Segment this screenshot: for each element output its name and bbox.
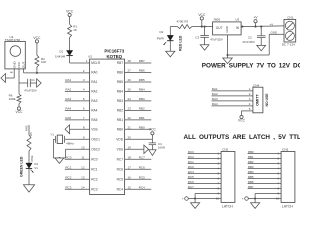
svg-text:RB7: RB7 [139, 59, 145, 63]
power rail wire (LED corner to 7805 OUT) [170, 26, 212, 28]
svg-text:RB5: RB5 [139, 78, 145, 82]
svg-text:VSS: VSS [91, 127, 97, 131]
svg-text:1N4148: 1N4148 [55, 54, 66, 58]
wire pin 27 RB6 [125, 69, 152, 73]
svg-text:100N: 100N [158, 146, 165, 150]
svg-text:POWER SUPPLY 7V TO 12V DC: POWER SUPPLY 7V TO 12V DC [202, 62, 300, 69]
svg-text:MCLR: MCLR [91, 61, 101, 65]
svg-text:RC2: RC2 [65, 176, 71, 180]
svg-text:RA1: RA1 [65, 78, 71, 82]
capacitor C3 47uF/25V [195, 26, 223, 45]
svg-text:RA3: RA3 [65, 97, 71, 101]
svg-text:15: 15 [128, 186, 132, 190]
capacitor C4 100N [149, 139, 165, 150]
regulator U3 7805 [213, 18, 242, 35]
led D2 PWR with label RED LED [157, 30, 183, 51]
wire pin 4 RA2 [65, 88, 90, 92]
wire TSOP OUT pin down [23, 69, 25, 73]
svg-text:D2: D2 [160, 30, 164, 34]
svg-text:RB4: RB4 [139, 88, 145, 92]
power VCC above R2 [33, 36, 41, 43]
svg-text:GND: GND [12, 61, 16, 69]
svg-text:RC6: RC6 [139, 166, 145, 170]
svg-text:16: 16 [128, 176, 132, 180]
wire 7805 GND down [226, 35, 228, 58]
svg-text:RB1: RB1 [139, 116, 145, 120]
svg-text:19: 19 [128, 146, 132, 150]
svg-text:CN2: CN2 [222, 147, 228, 151]
svg-text:12: 12 [81, 166, 85, 170]
wire pin 22 RB1 [125, 116, 152, 120]
wire pin 5 RA3 [65, 97, 90, 101]
wire pin 12 RC1 [65, 166, 90, 170]
wire TSOP VCC pin down [18, 69, 20, 94]
wire CN3 pin 2 RB1 [248, 155, 282, 161]
svg-text:RC5: RC5 [117, 178, 124, 182]
svg-text:RA4: RA4 [91, 109, 97, 113]
connector CN4 [253, 83, 269, 112]
svg-text:RB3: RB3 [117, 99, 123, 103]
svg-text:RB1: RB1 [117, 118, 123, 122]
wire CN3 pin 7 RB6 [248, 180, 282, 186]
svg-text:18: 18 [128, 156, 132, 160]
capacitor C2 47uF/25V [242, 26, 265, 46]
svg-text:RB0: RB0 [117, 127, 123, 131]
ground C1 (right arrow) [37, 79, 42, 87]
wire CN2 pin 10 GND [182, 197, 221, 201]
wire CN3 pin 3 RB2 [248, 160, 282, 166]
resistor R3 470E [177, 20, 193, 29]
U2 left pin names [91, 61, 101, 191]
power VCC node at U2 [149, 128, 157, 135]
wire pin 15 RC4 [125, 186, 152, 190]
wire pin 24 RB3 [125, 97, 152, 101]
svg-text:470E R3: 470E R3 [177, 20, 189, 24]
svg-text:RC4: RC4 [188, 170, 194, 174]
svg-text:VCC: VCC [16, 110, 24, 114]
IR receiver U1 TSOP1738 [5, 35, 26, 69]
svg-text:VCC: VCC [238, 119, 246, 123]
svg-text:RB0: RB0 [248, 150, 254, 154]
wire CN2 pin 5 RC4 [188, 170, 222, 176]
svg-text:LATCH: LATCH [282, 204, 293, 208]
svg-text:GND: GND [225, 26, 229, 32]
node +V terminal [253, 16, 273, 28]
svg-text:RB6: RB6 [139, 69, 145, 73]
svg-text:RB4: RB4 [248, 170, 254, 174]
led D2 PWR red [167, 27, 173, 41]
capacitor C1 47uF/25V [19, 78, 37, 92]
svg-text:RC5: RC5 [139, 176, 145, 180]
wire pin 18 RC7 [125, 156, 152, 160]
label all outputs heading [184, 134, 302, 141]
pin 1 wire MCLR [70, 59, 90, 63]
svg-text:10: 10 [276, 197, 280, 201]
svg-text:VCC: VCC [17, 61, 21, 68]
connector CN2 latch output [221, 147, 235, 208]
ground crystal [55, 158, 64, 163]
crystal Y1 4MHz [50, 132, 89, 159]
wire CN3 pin 1 RB0 [248, 150, 282, 156]
svg-text:22: 22 [128, 116, 132, 120]
svg-text:20: 20 [128, 136, 132, 140]
wire pin 25 RB4 [125, 88, 152, 92]
wire pin 16 RC5 [125, 176, 152, 180]
svg-text:RC7: RC7 [117, 158, 124, 162]
svg-text:U2: U2 [88, 55, 92, 59]
ground CN2 [191, 199, 200, 209]
svg-text:VDD: VDD [116, 138, 123, 142]
wire TSOP OUT to pin 2 RA0 [24, 69, 90, 73]
svg-text:LATCH: LATCH [222, 204, 233, 208]
wire pin 13 RC2 [65, 176, 90, 180]
wire pin 26 RB5 [125, 78, 152, 82]
svg-text:VCC: VCC [33, 36, 41, 40]
wire CN2 pin 7 RC6 [188, 180, 222, 186]
svg-text:RB7: RB7 [248, 185, 254, 189]
svg-text:1K: 1K [73, 28, 77, 32]
svg-text:24: 24 [128, 97, 132, 101]
svg-text:RB0: RB0 [139, 125, 145, 129]
wire pin 20 VDD to VCC [125, 135, 153, 140]
svg-text:47uF/25V: 47uF/25V [242, 40, 255, 44]
ground CN3 [251, 199, 260, 209]
svg-text:RC2: RC2 [188, 155, 194, 159]
svg-text:RC2: RC2 [91, 178, 98, 182]
svg-text:100E: 100E [9, 97, 16, 101]
svg-text:U3: U3 [235, 18, 239, 22]
svg-text:RB3: RB3 [139, 97, 145, 101]
wire RA5 net to green led [24, 125, 33, 136]
svg-text:21: 21 [128, 125, 132, 129]
wire TSOP GND pin to ground [5, 69, 14, 78]
svg-text:14: 14 [81, 186, 85, 190]
node junction R2/OUT [36, 72, 38, 74]
ground green led [23, 185, 34, 192]
svg-text:RB7: RB7 [117, 61, 123, 65]
wire CN3 pin 5 RB4 [248, 170, 282, 176]
wire CN2 pin 4 RC0 [188, 165, 222, 171]
svg-text:RC3: RC3 [188, 150, 194, 154]
svg-text:RC0: RC0 [188, 165, 194, 169]
svg-text:OSC2: OSC2 [91, 148, 100, 152]
svg-text:KOTEQ: KOTEQ [106, 54, 122, 59]
svg-text:RB5: RB5 [248, 175, 254, 179]
svg-text:OMITT: OMITT [255, 93, 259, 105]
wire CN4 pin 3 RA3 [212, 97, 253, 101]
svg-text:RC5: RC5 [188, 175, 194, 179]
svg-text:RC0: RC0 [91, 158, 98, 162]
svg-text:47uF/25V: 47uF/25V [24, 88, 37, 92]
svg-text:+: + [182, 197, 184, 201]
svg-text:RA0: RA0 [91, 71, 97, 75]
svg-text:RA3: RA3 [212, 97, 218, 101]
svg-text:VCC: VCC [198, 13, 206, 17]
svg-text:RC1: RC1 [65, 166, 71, 170]
svg-text:R5: R5 [29, 132, 33, 136]
svg-text:RB5: RB5 [117, 80, 123, 84]
svg-text:RC0: RC0 [65, 156, 71, 160]
wire CN2 pin 8 RC7 [188, 185, 222, 191]
wire 7805 IN to +V [241, 26, 284, 28]
wire pin 11 RC0 [65, 156, 90, 160]
wire pin 7 RA5 [65, 116, 90, 120]
ground C3 [200, 45, 209, 50]
wire CN3 pin 9 +V [255, 192, 281, 199]
wire CN1 GND return [228, 31, 285, 55]
resistor R2 10K [35, 43, 46, 73]
svg-text:V1: V1 [34, 166, 38, 170]
svg-text:RC7: RC7 [188, 185, 194, 189]
wire CN3 pin 4 RB3 [248, 165, 282, 171]
wire CN3 pin 10 GND [242, 197, 281, 201]
svg-text:RB2: RB2 [139, 107, 145, 111]
svg-text:D1: D1 [59, 49, 63, 53]
svg-text:RC1: RC1 [188, 160, 194, 164]
power VCC above R1 [66, 9, 74, 16]
svg-text:OUT: OUT [216, 26, 223, 30]
svg-text:RC6: RC6 [188, 180, 194, 184]
svg-text:4MHz: 4MHz [66, 142, 74, 146]
svg-text:RA5: RA5 [24, 125, 28, 131]
power VCC below R6 [16, 104, 24, 115]
ground TSOP (left arrow) [1, 74, 6, 83]
svg-text:RB4: RB4 [117, 90, 123, 94]
svg-text:C2: C2 [248, 35, 252, 39]
svg-text:RB2: RB2 [117, 109, 123, 113]
svg-text:RA2: RA2 [91, 90, 97, 94]
svg-text:27: 27 [128, 69, 132, 73]
wire CN2 pin 3 RC1 [188, 160, 222, 166]
svg-text:RA5: RA5 [91, 118, 97, 122]
svg-text:RB2: RB2 [248, 160, 254, 164]
wire pin 17 RC6 [125, 166, 152, 170]
wire CN4 pin 1 RA1 [212, 87, 253, 91]
wire pin 3 RA1 [65, 78, 90, 82]
U2 right pin names [116, 61, 123, 191]
svg-text:C3: C3 [195, 35, 199, 39]
svg-text:RA2: RA2 [212, 92, 218, 96]
svg-text:47uF/25V: 47uF/25V [210, 38, 223, 42]
svg-text:GREEN LED: GREEN LED [20, 156, 24, 177]
svg-text:DC 7-12V: DC 7-12V [282, 43, 297, 47]
wire CN4 pin 5 VCC [242, 107, 253, 115]
resistor R6 100E [9, 93, 21, 103]
IC U2 PIC16F73 microcontroller body [88, 48, 125, 194]
connector CN1 DC input [282, 16, 297, 47]
svg-text:13: 13 [81, 176, 85, 180]
wire CN2 pin 9 +V [195, 192, 221, 199]
svg-text:CN3: CN3 [282, 147, 288, 151]
svg-text:10: 10 [81, 146, 85, 150]
svg-text:17: 17 [128, 166, 132, 170]
svg-text:RB6: RB6 [117, 71, 123, 75]
ground C2 [257, 45, 266, 50]
svg-text:RC1: RC1 [91, 168, 98, 172]
svg-text:OUT: OUT [22, 62, 26, 69]
svg-text:+: + [242, 197, 244, 201]
wire pin 14 RC3 [65, 186, 90, 190]
wire CN4 pin 2 RA2 [212, 92, 253, 96]
label power supply heading [202, 62, 303, 69]
ground 7805 [223, 58, 233, 64]
led D3 green [26, 151, 39, 185]
power VCC at CN4 [238, 115, 246, 122]
svg-text:7805: 7805 [213, 18, 220, 22]
svg-text:10K: 10K [41, 60, 46, 64]
svg-text:Y1: Y1 [50, 132, 54, 136]
wire CN4 pin 4 RA4 [212, 102, 253, 106]
diode D1 1N4148 [55, 49, 73, 63]
wire pin 28 RB7 [125, 59, 152, 63]
wire CN2 pin 1 RC3 [188, 150, 222, 156]
node VCC junction power [198, 13, 206, 28]
wire pin 6 RA4 [65, 107, 90, 111]
svg-text:NO USE: NO USE [265, 93, 269, 107]
svg-text:PWR: PWR [157, 37, 165, 41]
svg-text:+V: +V [270, 23, 274, 27]
svg-text:VCC: VCC [66, 9, 74, 13]
wire CN3 pin 8 RB7 [248, 185, 282, 191]
svg-text:OSC1: OSC1 [91, 138, 100, 142]
svg-text:470E: 470E [30, 155, 34, 162]
connector CN3 latch output [281, 147, 295, 208]
svg-text:RC4: RC4 [139, 186, 145, 190]
wire CN2 pin 6 RC5 [188, 175, 222, 181]
wire pin 23 RB2 [125, 107, 152, 111]
label GREEN LED [20, 156, 24, 177]
svg-text:ALL OUTPUTS ARE LATCH , 5V TTL: ALL OUTPUTS ARE LATCH , 5V TTL [184, 134, 301, 141]
svg-text:RA2: RA2 [65, 88, 71, 92]
ground arrow pin 8 VSS [65, 125, 90, 134]
ground D2 [166, 51, 175, 57]
svg-text:RA1: RA1 [91, 80, 97, 84]
svg-text:25: 25 [128, 88, 132, 92]
wire pin 21 RB0 [125, 125, 152, 129]
wire CN3 pin 6 RB5 [248, 175, 282, 181]
svg-text:26: 26 [128, 78, 132, 82]
svg-text:RC6: RC6 [117, 168, 124, 172]
svg-text:RA5: RA5 [65, 116, 71, 120]
resistor R1 1K [68, 17, 78, 51]
svg-text:VCC: VCC [149, 128, 157, 132]
svg-text:RA1: RA1 [212, 87, 218, 91]
svg-text:RB6: RB6 [248, 180, 254, 184]
svg-text:11: 11 [81, 156, 84, 160]
wire CN2 pin 2 RC2 [188, 155, 222, 161]
svg-text:23: 23 [128, 107, 132, 111]
svg-text:RA4: RA4 [65, 107, 71, 111]
ground arrow pin 19 VSS [125, 145, 149, 153]
svg-text:RA3: RA3 [91, 99, 97, 103]
svg-text:RB3: RB3 [248, 165, 254, 169]
svg-text:RB1: RB1 [248, 155, 254, 159]
svg-text:RC3: RC3 [65, 186, 71, 190]
svg-text:C1: C1 [31, 78, 35, 82]
svg-text:10: 10 [216, 197, 220, 201]
svg-text:28: 28 [128, 59, 132, 63]
svg-text:RC7: RC7 [139, 156, 145, 160]
svg-text:RED LED: RED LED [179, 35, 183, 51]
ground C4 [149, 150, 156, 156]
svg-text:RC3: RC3 [91, 188, 98, 192]
svg-text:RA4: RA4 [212, 102, 218, 106]
svg-text:RC4: RC4 [117, 188, 124, 192]
svg-text:PIC16F73: PIC16F73 [104, 48, 124, 53]
svg-text:VSS: VSS [117, 148, 123, 152]
resistor R5 470E [27, 135, 34, 162]
